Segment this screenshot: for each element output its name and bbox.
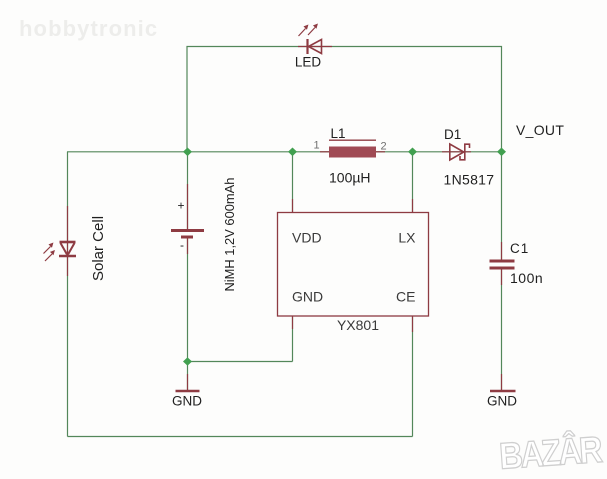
svg-text:Solar Cell: Solar Cell bbox=[90, 216, 107, 281]
wire left gnd vertical x=187 bbox=[187, 362, 189, 391]
pin stub IC GND bbox=[292, 316, 294, 329]
wire battery vertical x=187 upper bbox=[187, 152, 189, 229]
pin stub C1 top bbox=[501, 242, 503, 260]
pin stub D1 through bbox=[442, 151, 471, 153]
junction at V_OUT node bbox=[497, 148, 506, 157]
ground symbol left bbox=[176, 390, 200, 393]
wire left vertical x=67 solar cell branch bbox=[67, 152, 69, 437]
svg-text:-: - bbox=[180, 238, 184, 252]
junction at battery top node bbox=[183, 148, 192, 157]
svg-text:VDD: VDD bbox=[292, 230, 322, 246]
svg-text:C1: C1 bbox=[510, 241, 529, 256]
wire CE vertical x=412 bbox=[412, 316, 414, 437]
svg-text:100n: 100n bbox=[510, 270, 543, 286]
pin stub battery top bbox=[187, 184, 189, 229]
pin stub GND left bbox=[187, 374, 189, 390]
IC U1 YX801 box bbox=[278, 213, 429, 317]
svg-text:1N5817: 1N5817 bbox=[444, 172, 495, 188]
pin stub CE bbox=[412, 316, 414, 332]
wire main horizontal rail y=152 bbox=[67, 151, 502, 153]
pin stub L1 right bbox=[376, 151, 385, 153]
svg-text:1: 1 bbox=[314, 140, 320, 152]
capacitor C1 symbol bbox=[490, 261, 515, 268]
svg-text:GND: GND bbox=[292, 289, 323, 305]
diode D1 symbol schottky bbox=[450, 144, 470, 160]
svg-text:L1: L1 bbox=[331, 126, 346, 141]
wire top rail y=46 from x=187 to x=501 bbox=[187, 47, 502, 153]
svg-text:V_OUT: V_OUT bbox=[516, 122, 564, 138]
svg-text:LX: LX bbox=[398, 230, 416, 246]
solar cell symbol bbox=[44, 242, 77, 261]
battery BAT1 symbol bbox=[171, 231, 204, 238]
pin stub LX bbox=[412, 199, 414, 212]
svg-text:NiMH 1,2V 600mAh: NiMH 1,2V 600mAh bbox=[222, 178, 237, 292]
wire v_out vertical x=501 cap branch upper bbox=[501, 152, 503, 260]
svg-text:YX801: YX801 bbox=[337, 317, 379, 333]
svg-text:100µH: 100µH bbox=[329, 170, 371, 186]
watermark hobbytronic bbox=[19, 16, 158, 42]
svg-text:+: + bbox=[178, 199, 185, 213]
watermark BAZAR logo bbox=[498, 429, 601, 478]
junction at VDD node bbox=[288, 148, 297, 157]
pin stub solar cell through bbox=[67, 206, 69, 276]
svg-text:D1: D1 bbox=[444, 127, 461, 142]
wire battery vertical x=187 lower bbox=[187, 238, 189, 362]
wire gnd horizontal y=361 bbox=[188, 361, 293, 363]
svg-text:GND: GND bbox=[487, 394, 517, 409]
wire bottom rail y=436 bbox=[68, 436, 413, 438]
wire ic gnd pin vertical x=292 bbox=[292, 316, 294, 362]
inductor L1 symbol bbox=[329, 140, 376, 157]
pin stub LED through bbox=[298, 46, 332, 48]
junction at LX node bbox=[408, 148, 417, 157]
wire v_out vertical x=501 cap branch lower bbox=[501, 269, 503, 390]
pin stub C1 bottom bbox=[501, 269, 503, 285]
junction at GND node bbox=[183, 357, 192, 366]
wire lx pin vertical x=412 bbox=[412, 152, 414, 212]
pin stub GND right bbox=[501, 374, 503, 390]
pin stub VDD bbox=[292, 199, 294, 212]
LED symbol bbox=[299, 24, 322, 54]
svg-text:CE: CE bbox=[396, 289, 415, 305]
svg-text:GND: GND bbox=[172, 394, 202, 409]
svg-text:2: 2 bbox=[381, 141, 387, 153]
pin stub L1 left bbox=[320, 151, 329, 153]
svg-text:LED: LED bbox=[295, 55, 322, 70]
ground symbol right bbox=[490, 390, 516, 393]
pin stub battery bottom bbox=[187, 238, 189, 254]
wire vdd pin vertical x=292 bbox=[292, 152, 294, 212]
